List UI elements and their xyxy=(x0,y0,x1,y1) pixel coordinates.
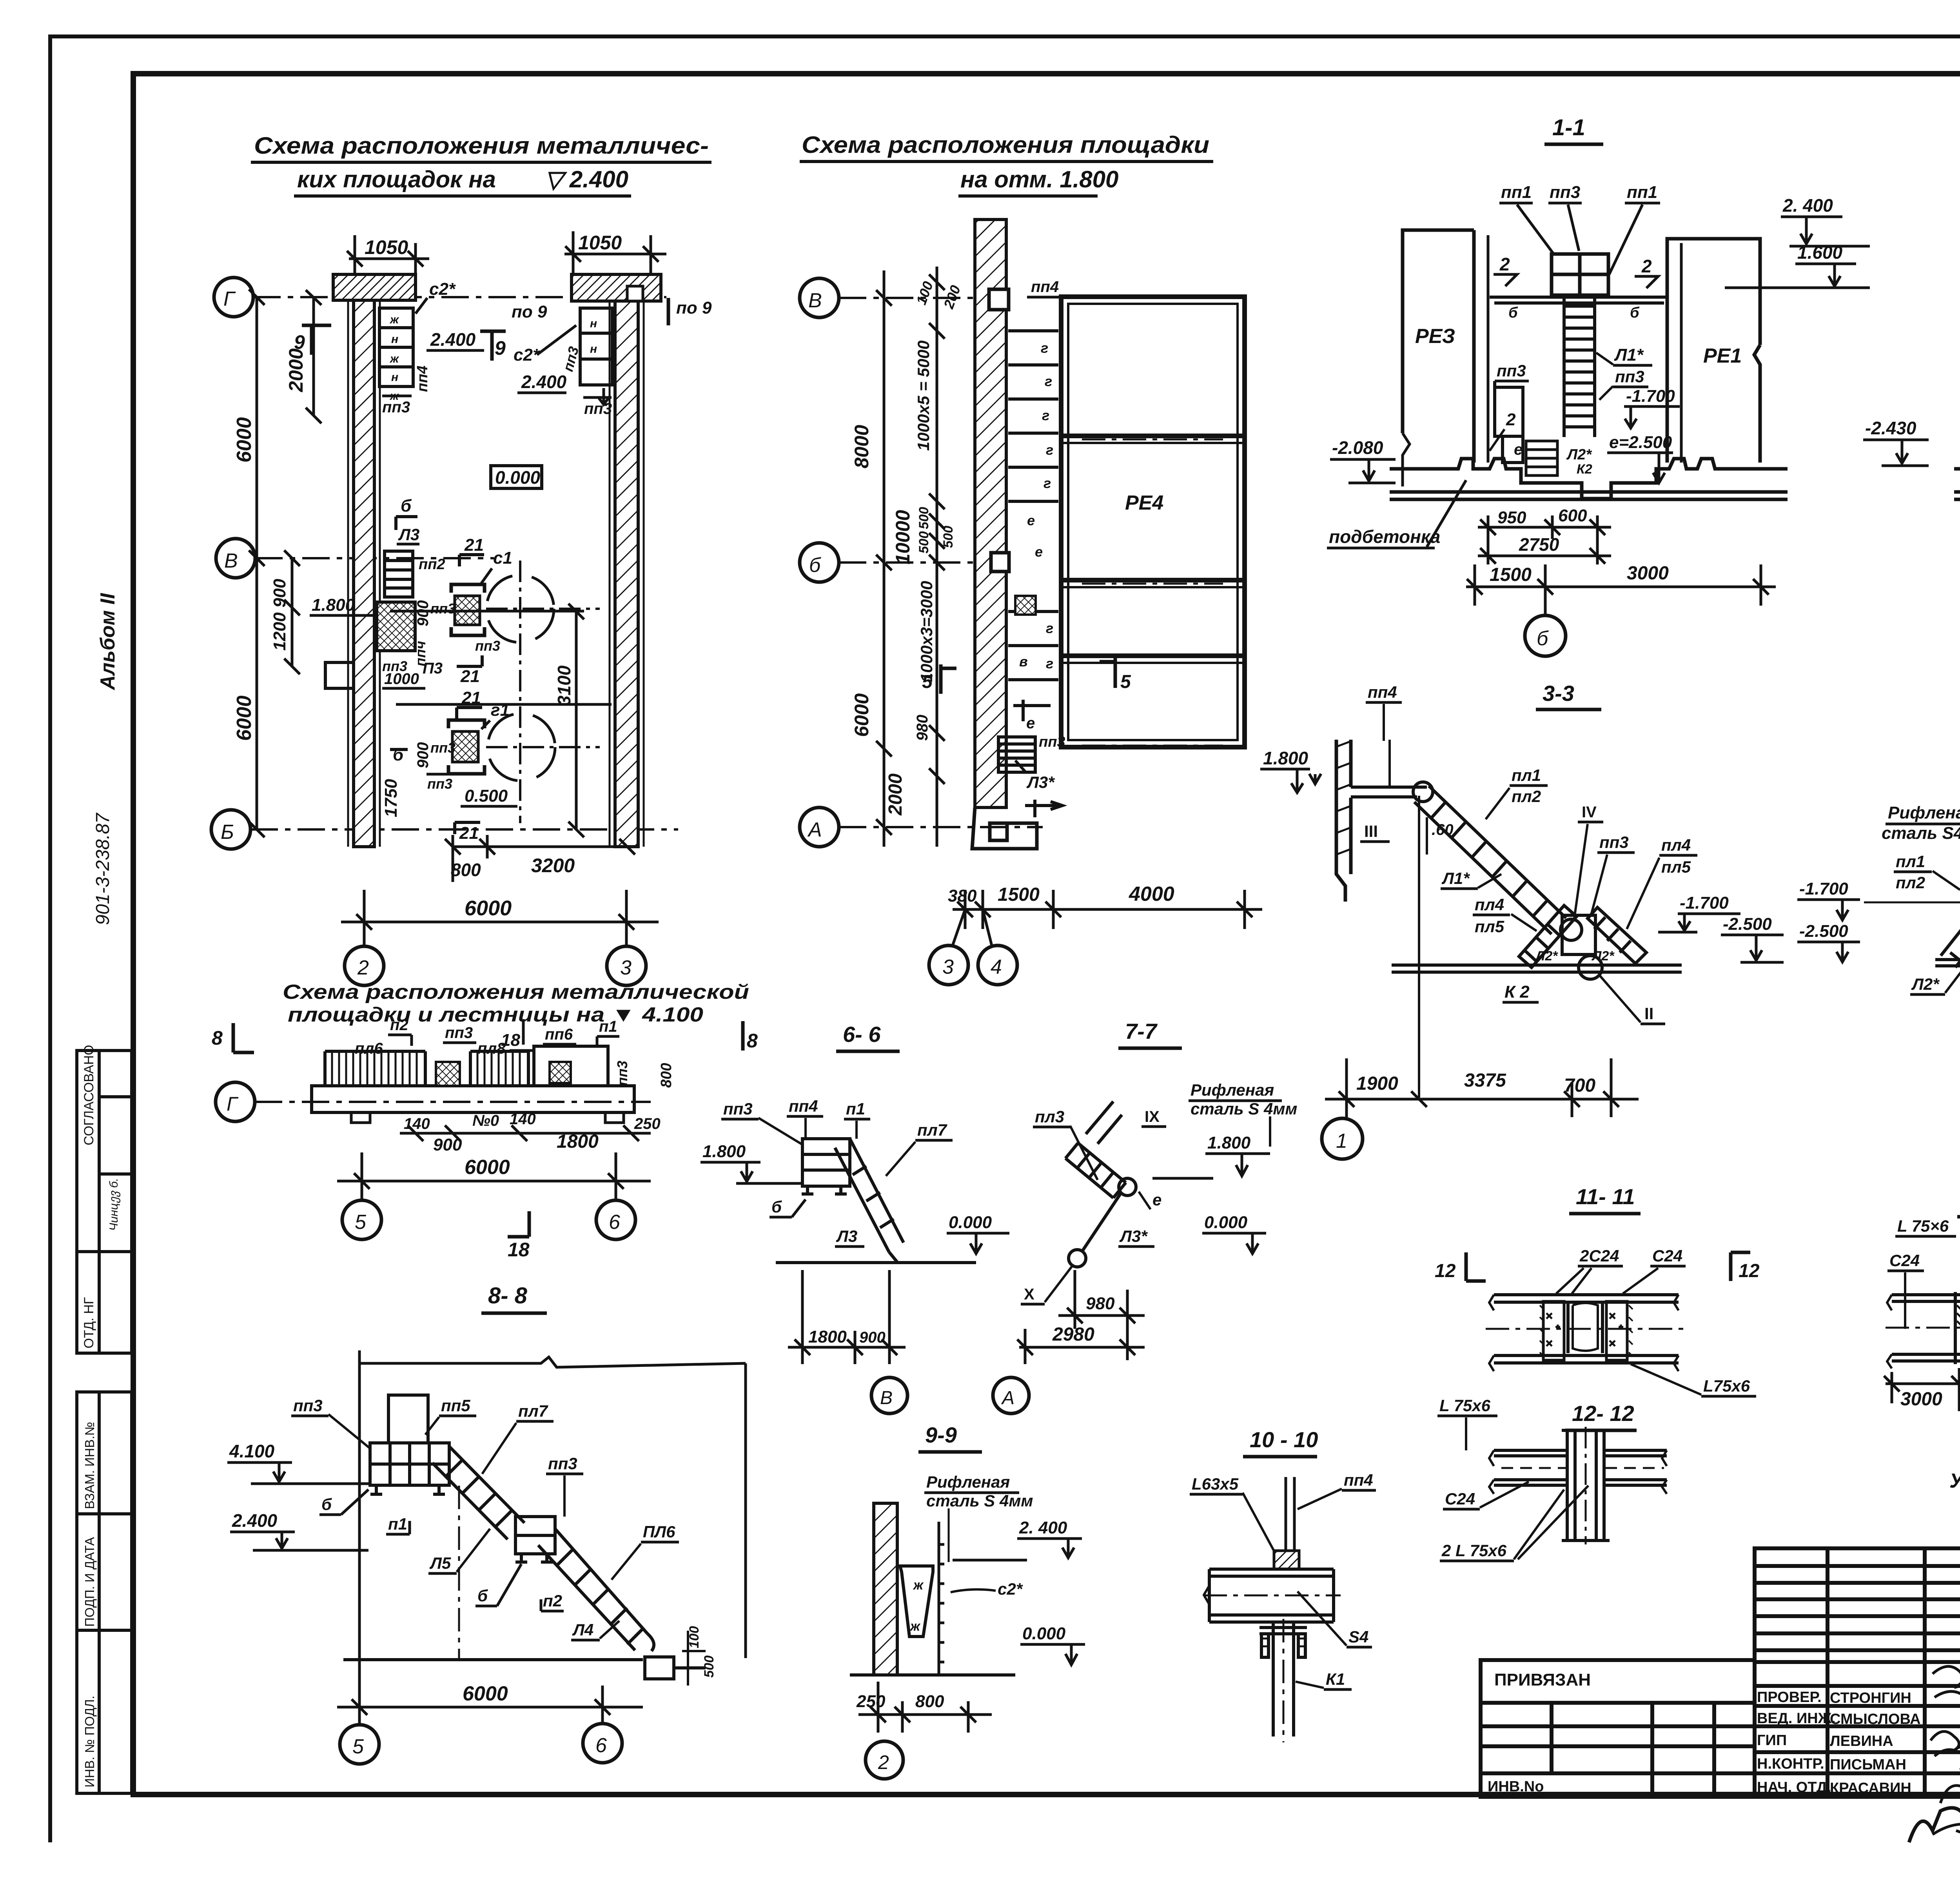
section mark 9 mid xyxy=(480,331,506,361)
svg-text:с2*: с2* xyxy=(514,345,540,365)
svg-text:500: 500 xyxy=(941,526,956,548)
svg-text:5: 5 xyxy=(352,1735,364,1758)
svg-text:Л3*: Л3* xyxy=(1119,1227,1148,1245)
svg-text:С24: С24 xyxy=(1445,1490,1475,1508)
plan2 bottom dims xyxy=(953,890,1262,929)
platform (6-6) xyxy=(802,1139,850,1194)
mesh square mid xyxy=(1015,596,1036,615)
svg-text:II: II xyxy=(1644,1004,1653,1023)
svg-text:пп3: пп3 xyxy=(1615,367,1644,386)
svg-text:1.800: 1.800 xyxy=(1263,748,1308,768)
svg-text:1050: 1050 xyxy=(578,232,622,254)
svg-text:18: 18 xyxy=(508,1239,530,1261)
tank РЕ3 (1-1) xyxy=(1403,230,1488,486)
svg-text:площадки и лестницы на ▼: площадки и лестницы на ▼ 4.100 xyxy=(288,1003,703,1026)
svg-text:▽ 2.400: ▽ 2.400 xyxy=(545,166,628,192)
dims (7-7) xyxy=(1058,1270,1145,1360)
svg-text:Б: Б xyxy=(221,821,234,844)
central 2C24 channel (11-11) xyxy=(1568,1301,1602,1353)
dims 1900 3375 700 xyxy=(1325,1058,1639,1117)
svg-text:е=2.500: е=2.500 xyxy=(1609,433,1672,452)
ground line (6-6) xyxy=(776,1261,976,1264)
svg-text:К1: К1 xyxy=(1326,1670,1345,1688)
svg-text:21: 21 xyxy=(460,667,480,686)
svg-text:1: 1 xyxy=(1336,1130,1347,1152)
svg-text:пп3: пп3 xyxy=(1599,833,1629,851)
right wall plan1 xyxy=(615,274,638,847)
svg-text:380: 380 xyxy=(948,886,977,905)
dim 1050 right xyxy=(564,231,666,274)
svg-text:е: е xyxy=(1026,715,1035,732)
svg-text:500: 500 xyxy=(702,1655,717,1678)
svg-text:Схема расположения металлическ: Схема расположения металлической xyxy=(283,981,749,1003)
svg-text:3000: 3000 xyxy=(1900,1389,1942,1410)
bottom dim 6000 xyxy=(341,890,659,946)
axis Г line (4.100) xyxy=(255,1101,651,1103)
svg-text:г: г xyxy=(1046,620,1053,636)
stair axis line (3-3) xyxy=(1418,796,1420,1098)
svg-text:г: г xyxy=(1046,442,1053,458)
svg-text:III: III xyxy=(1364,822,1378,840)
svg-text:пп3: пп3 xyxy=(614,1061,630,1086)
svg-text:пп3: пп3 xyxy=(1497,361,1526,380)
axis circle Б (plan2) xyxy=(800,543,839,582)
dim line lower cluster xyxy=(396,703,612,706)
svg-text:900: 900 xyxy=(414,600,432,626)
section mark 9 left xyxy=(302,325,331,355)
svg-text:9: 9 xyxy=(294,331,305,353)
svg-text:п2: п2 xyxy=(390,1016,408,1034)
svg-text:2980: 2980 xyxy=(1052,1324,1094,1345)
svg-text:L63х5: L63х5 xyxy=(1192,1475,1239,1493)
floor profile 1-1 xyxy=(1390,459,1788,499)
stair (6-6) xyxy=(835,1139,904,1263)
left wall plan1 xyxy=(354,274,374,847)
section mark 5 inside tank xyxy=(1100,658,1115,688)
svg-text:Альбом II: Альбом II xyxy=(96,593,119,691)
stair flight 1 (8-8) xyxy=(432,1446,524,1539)
svg-text:2С24: 2С24 xyxy=(1579,1247,1619,1265)
svg-text:ж: ж xyxy=(389,313,399,326)
bolt plate right (11-11) xyxy=(1606,1301,1633,1360)
svg-text:пп3: пп3 xyxy=(293,1396,323,1415)
svg-text:е: е xyxy=(1035,544,1043,560)
svg-text:Л5: Л5 xyxy=(429,1554,451,1572)
axis dash line (8-8) xyxy=(458,1486,460,1660)
svg-text:2 L 75х6: 2 L 75х6 xyxy=(1441,1541,1507,1560)
base rail (4-4) xyxy=(1935,960,1960,966)
bottom dim 800/3200 xyxy=(445,835,638,882)
svg-text:С24: С24 xyxy=(1889,1251,1920,1270)
svg-text:980: 980 xyxy=(1086,1294,1115,1313)
svg-text:пп5: пп5 xyxy=(441,1396,470,1415)
svg-text:1500: 1500 xyxy=(1490,564,1532,585)
axis circle Б (plan1) xyxy=(211,810,250,849)
tank circle dashed lower xyxy=(488,713,555,781)
label 21 bottom xyxy=(455,822,480,834)
label 21 below xyxy=(457,655,482,666)
svg-text:L75х6: L75х6 xyxy=(1703,1377,1750,1395)
axis lines plan2 xyxy=(839,298,1043,827)
beam (11-11) xyxy=(1489,1295,1679,1371)
svg-text:.60: .60 xyxy=(1432,821,1454,838)
svg-text:6000: 6000 xyxy=(233,417,256,463)
left wall cap xyxy=(333,274,416,300)
svg-text:500: 500 xyxy=(916,531,931,553)
svg-text:е: е xyxy=(1514,441,1523,458)
svg-text:РЕ1: РЕ1 xyxy=(1703,345,1742,367)
svg-text:9-9: 9-9 xyxy=(925,1423,957,1447)
svg-text:250: 250 xyxy=(856,1692,886,1711)
circle II (3-3) xyxy=(1579,956,1602,979)
lower stair cluster C1 box xyxy=(448,720,485,774)
svg-text:L 75х6: L 75х6 xyxy=(1439,1396,1491,1415)
svg-text:250: 250 xyxy=(634,1115,661,1132)
dim column 8000/10000/6000/2000 xyxy=(876,270,892,847)
axis circle 3 xyxy=(607,946,646,985)
bolt plate left (11-11) xyxy=(1540,1301,1564,1360)
svg-text:2750: 2750 xyxy=(1519,534,1559,555)
svg-text:С24: С24 xyxy=(1652,1247,1682,1265)
dim 2750 xyxy=(1478,548,1611,564)
svg-text:2: 2 xyxy=(357,956,369,979)
svg-text:12: 12 xyxy=(1435,1261,1456,1281)
svg-text:пп3: пп3 xyxy=(445,1024,473,1042)
beam (10-10) xyxy=(1204,1569,1334,1622)
tank block РЕ4 xyxy=(1061,297,1245,747)
svg-text:Схема расположения металличес-: Схема расположения металличес- xyxy=(254,132,709,159)
svg-text:21: 21 xyxy=(459,824,479,843)
svg-text:6000: 6000 xyxy=(465,896,512,920)
ground line (8-8) xyxy=(343,1658,643,1661)
svg-text:1800: 1800 xyxy=(808,1327,847,1346)
svg-text:с2*: с2* xyxy=(998,1580,1023,1598)
wall (3-3) xyxy=(1336,740,1351,902)
svg-text:б: б xyxy=(1537,627,1549,650)
svg-text:пп6: пп6 xyxy=(545,1026,573,1043)
svg-text:1000х3=3000: 1000х3=3000 xyxy=(917,581,936,682)
svg-text:сталь S 4мм: сталь S 4мм xyxy=(926,1492,1033,1510)
svg-text:12- 12: 12- 12 xyxy=(1572,1401,1634,1426)
dim column 6000/6000 xyxy=(249,289,265,837)
svg-text:1750: 1750 xyxy=(381,779,401,817)
hinge circle (3-3) xyxy=(1413,782,1433,802)
svg-text:Рифленая: Рифленая xyxy=(926,1473,1010,1491)
circle IV (3-3) xyxy=(1561,919,1582,940)
svg-text:пп3: пп3 xyxy=(1550,183,1580,202)
svg-text:б: б xyxy=(771,1198,782,1216)
е mark above foot xyxy=(1025,800,1062,817)
svg-text:б: б xyxy=(477,1586,488,1605)
svg-text:г: г xyxy=(1046,655,1053,671)
svg-text:-2.080: -2.080 xyxy=(1332,437,1383,458)
svg-text:Л1*: Л1* xyxy=(1614,345,1644,365)
chimney (8-8) xyxy=(388,1395,428,1443)
svg-text:ж: ж xyxy=(389,352,399,365)
feet below band xyxy=(351,1112,370,1123)
frame lines (8-8) xyxy=(359,1350,746,1707)
dim 1050 left xyxy=(347,235,429,274)
svg-text:на отм. 1.800: на отм. 1.800 xyxy=(960,166,1118,192)
svg-text:1.800: 1.800 xyxy=(312,595,355,615)
svg-text:с2*: с2* xyxy=(429,279,456,299)
bucket (9-9) xyxy=(900,1566,933,1637)
svg-text:1200 900: 1200 900 xyxy=(270,579,289,651)
svg-text:5: 5 xyxy=(355,1211,367,1234)
svg-text:К2: К2 xyxy=(1577,462,1592,477)
svg-text:6000: 6000 xyxy=(233,695,256,741)
svg-text:ПИСЬМАН: ПИСЬМАН xyxy=(1830,1756,1906,1773)
axis circle А (7-7) xyxy=(993,1377,1029,1414)
top platform (8-8) xyxy=(370,1443,449,1494)
axis circle 6 (plan) xyxy=(596,1200,635,1239)
svg-text:СМЫСЛОВА: СМЫСЛОВА xyxy=(1830,1711,1921,1727)
svg-text:2.400: 2.400 xyxy=(521,372,567,392)
svg-text:№0: №0 xyxy=(472,1112,499,1129)
svg-text:пп3: пп3 xyxy=(475,638,500,654)
svg-text:1000х5 = 5000: 1000х5 = 5000 xyxy=(914,341,933,451)
svg-text:пп1: пп1 xyxy=(1501,183,1532,202)
svg-text:7-7: 7-7 xyxy=(1125,1019,1158,1043)
svg-text:по 9: по 9 xyxy=(676,298,712,318)
C1 channel box upper xyxy=(451,584,485,635)
svg-text:н: н xyxy=(391,371,398,384)
svg-text:г: г xyxy=(1042,407,1049,423)
svg-text:1.600: 1.600 xyxy=(1797,242,1843,263)
lower small stair xyxy=(1526,441,1557,475)
tank centerlines upper xyxy=(486,561,600,823)
svg-text:4: 4 xyxy=(991,956,1002,978)
platform at 1.600 xyxy=(1490,297,1667,303)
post (10-10) xyxy=(1274,1477,1299,1569)
rung letters xyxy=(1019,340,1053,671)
label 21 lower cluster xyxy=(457,708,482,719)
axis circle В (plan2) xyxy=(800,278,839,318)
ground line (9-9) xyxy=(850,1673,1015,1677)
svg-text:пп3: пп3 xyxy=(723,1100,753,1118)
svg-text:Г: Г xyxy=(227,1093,239,1115)
svg-text:ж: ж xyxy=(913,1578,924,1593)
svg-text:пл2: пл2 xyxy=(1512,787,1541,806)
central ladder 1-1 xyxy=(1564,295,1595,437)
svg-text:ИНВ. № ПОДЛ.: ИНВ. № ПОДЛ. xyxy=(82,1696,97,1787)
svg-text:IV: IV xyxy=(1582,804,1597,821)
dim 2000 xyxy=(306,290,321,423)
axis б (1-1) xyxy=(1544,611,1547,615)
column (12-12) xyxy=(1562,1430,1610,1541)
svg-text:6000: 6000 xyxy=(465,1156,510,1179)
svg-text:1050: 1050 xyxy=(365,236,408,258)
svg-text:ОТД. НГ: ОТД. НГ xyxy=(82,1297,96,1348)
svg-text:ЛЕВИНА: ЛЕВИНА xyxy=(1830,1733,1893,1749)
svg-text:2. 400: 2. 400 xyxy=(1782,195,1833,216)
svg-text:ПРОВЕР.: ПРОВЕР. xyxy=(1757,1689,1822,1706)
svg-text:0.000: 0.000 xyxy=(1204,1213,1248,1232)
svg-text:ПЛ6: ПЛ6 xyxy=(643,1522,675,1541)
svg-text:СОГЛАСОВАНО: СОГЛАСОВАНО xyxy=(82,1045,96,1145)
axis circle В (plan1) xyxy=(216,539,255,578)
б flag at stair xyxy=(396,517,417,530)
svg-text:8- 8: 8- 8 xyxy=(488,1283,528,1308)
svg-text:Л2*: Л2* xyxy=(1566,446,1592,463)
svg-text:пп3: пп3 xyxy=(382,399,410,416)
svg-text:пп4: пп4 xyxy=(1344,1471,1373,1489)
svg-text:пп2: пп2 xyxy=(419,556,445,573)
svg-text:пп3: пп3 xyxy=(430,601,456,617)
svg-text:3000: 3000 xyxy=(1627,563,1669,584)
svg-text:В: В xyxy=(880,1388,893,1408)
svg-text:н: н xyxy=(590,317,597,330)
floor profile 2-2 xyxy=(1954,459,1960,499)
svg-text:сталь S 4мм: сталь S 4мм xyxy=(1191,1100,1298,1118)
svg-text:5: 5 xyxy=(922,671,933,692)
svg-text:К 2: К 2 xyxy=(1504,982,1530,1002)
svg-text:А: А xyxy=(1001,1388,1014,1408)
dims (4.100 plan) xyxy=(400,1125,651,1141)
svg-text:6: 6 xyxy=(595,1734,607,1757)
svg-text:3: 3 xyxy=(942,956,954,978)
12 mark right xyxy=(1731,1252,1750,1281)
svg-text:п1: п1 xyxy=(599,1018,617,1035)
svg-text:1500: 1500 xyxy=(998,884,1040,905)
svg-text:СТРОНГИН: СТРОНГИН xyxy=(1830,1690,1911,1706)
12 mark left xyxy=(1466,1252,1486,1281)
svg-text:б: б xyxy=(1508,305,1518,321)
svg-text:пл1: пл1 xyxy=(1896,852,1925,871)
wall foot at А xyxy=(972,807,1037,849)
svg-text:РЕ4: РЕ4 xyxy=(1125,492,1163,514)
svg-text:X: X xyxy=(1024,1286,1034,1303)
svg-text:6- 6: 6- 6 xyxy=(843,1022,881,1047)
svg-text:-1.700: -1.700 xyxy=(1799,879,1848,898)
svg-text:п2: п2 xyxy=(543,1591,562,1610)
stair flight (3-3) xyxy=(1414,786,1566,934)
svg-text:21: 21 xyxy=(464,535,484,555)
svg-text:пп4: пп4 xyxy=(789,1097,818,1115)
top platform (3-3) xyxy=(1351,740,1427,797)
svg-text:2.400: 2.400 xyxy=(232,1510,278,1531)
dims 250 800 (9-9) xyxy=(858,1682,992,1733)
svg-text:6: 6 xyxy=(609,1211,620,1234)
stair band (7-7) xyxy=(1065,1101,1126,1250)
svg-text:Г: Г xyxy=(223,288,236,310)
section mark 18 bottom xyxy=(508,1211,529,1237)
svg-text:3-3: 3-3 xyxy=(1543,681,1574,706)
hinge circles (7-7) xyxy=(1119,1178,1136,1196)
svg-text:сталь S4мм: сталь S4мм xyxy=(1882,824,1960,843)
svg-text:по 9: по 9 xyxy=(512,302,547,321)
svg-text:б: б xyxy=(809,554,821,577)
stair hatch box bottom xyxy=(998,737,1035,772)
axis circle 5 (plan) xyxy=(342,1200,381,1239)
svg-text:п1: п1 xyxy=(388,1515,407,1533)
svg-text:1800: 1800 xyxy=(557,1131,599,1152)
svg-text:3: 3 xyxy=(620,956,632,979)
left beam (12-12) xyxy=(1489,1450,1567,1494)
svg-text:500: 500 xyxy=(916,507,931,529)
svg-text:ких площадок на: ких площадок на xyxy=(297,166,496,192)
svg-text:пл3: пл3 xyxy=(1035,1107,1064,1126)
lower margin boxes xyxy=(77,1392,132,1793)
svg-text:1900: 1900 xyxy=(1356,1073,1398,1094)
axis circle 2 (9-9) xyxy=(866,1741,903,1779)
axis circle 5 (8-8) xyxy=(340,1725,379,1764)
svg-text:3375: 3375 xyxy=(1464,1070,1506,1091)
svg-text:пп3: пп3 xyxy=(548,1454,577,1473)
wall (9-9) xyxy=(874,1503,897,1675)
svg-text:950: 950 xyxy=(1497,508,1526,527)
svg-text:Л2*: Л2* xyxy=(1911,975,1940,993)
top hatch block (пп1 grating) xyxy=(1552,254,1608,295)
svg-text:-2.500: -2.500 xyxy=(1799,922,1848,941)
svg-text:900: 900 xyxy=(859,1329,886,1346)
svg-text:8: 8 xyxy=(747,1030,758,1052)
svg-text:п1: п1 xyxy=(846,1100,865,1118)
svg-text:0.500: 0.500 xyxy=(465,786,508,806)
plan2 wall xyxy=(975,220,1006,807)
svg-text:700: 700 xyxy=(1564,1075,1595,1096)
svg-text:н: н xyxy=(391,333,398,346)
svg-text:НАЧ. ОТД.: НАЧ. ОТД. xyxy=(1757,1779,1831,1796)
dim 1200 900 xyxy=(284,550,300,674)
axis circle 3 (plan2) xyxy=(929,945,968,985)
plan 2.400 title xyxy=(254,132,709,192)
section mark 5 left xyxy=(941,664,956,694)
svg-text:пл2: пл2 xyxy=(1896,873,1925,892)
е mark lower xyxy=(1013,700,1051,721)
svg-text:600: 600 xyxy=(1558,506,1587,525)
svg-text:г: г xyxy=(1045,373,1052,389)
svg-text:Л3: Л3 xyxy=(836,1227,857,1245)
svg-text:пл5: пл5 xyxy=(1661,858,1691,876)
svg-text:-1.700: -1.700 xyxy=(1680,893,1729,913)
stamp signature labels xyxy=(1757,1689,1921,1796)
svg-text:пп3: пп3 xyxy=(430,740,456,756)
svg-text:-2.430: -2.430 xyxy=(1865,418,1916,438)
svg-text:2: 2 xyxy=(1506,410,1516,429)
svg-text:В: В xyxy=(224,550,238,572)
svg-text:КРАСАВИН: КРАСАВИН xyxy=(1830,1780,1911,1796)
svg-text:2. 400: 2. 400 xyxy=(1019,1518,1067,1537)
mid landing (8-8) xyxy=(515,1517,555,1562)
tank РЕ1 (1-1) xyxy=(1667,239,1760,463)
svg-text:Л3*: Л3* xyxy=(1026,773,1055,791)
svg-text:2000: 2000 xyxy=(885,773,906,816)
dim line 3100 top xyxy=(390,610,584,613)
wall node at Б xyxy=(991,553,1009,572)
svg-text:3100: 3100 xyxy=(554,665,574,706)
svg-text:е: е xyxy=(1027,512,1035,528)
mesh squares on platform xyxy=(436,1062,460,1086)
svg-text:901-3-238.87: 901-3-238.87 xyxy=(93,812,113,925)
dims 1500 3000 (1-1) xyxy=(1466,564,1776,611)
svg-text:ИНВ.No: ИНВ.No xyxy=(1488,1778,1544,1795)
dims 3000 3000 (13-13) xyxy=(1884,1368,1960,1411)
svg-text:ПОДП. И ДАТА: ПОДП. И ДАТА xyxy=(82,1537,97,1627)
svg-text:800: 800 xyxy=(915,1692,944,1711)
svg-text:пл7: пл7 xyxy=(518,1402,548,1420)
svg-text:980: 980 xyxy=(914,715,931,741)
svg-text:г: г xyxy=(1044,475,1051,491)
svg-text:0.000: 0.000 xyxy=(1022,1624,1066,1643)
stair block at B axis xyxy=(385,551,413,597)
svg-text:-1.700: -1.700 xyxy=(1626,386,1675,406)
svg-text:н: н xyxy=(590,343,597,356)
svg-text:900: 900 xyxy=(433,1135,462,1154)
approval margin table xyxy=(77,1051,132,1353)
svg-text:2.400: 2.400 xyxy=(430,329,476,350)
svg-text:РЕЗ: РЕЗ xyxy=(1415,325,1455,348)
